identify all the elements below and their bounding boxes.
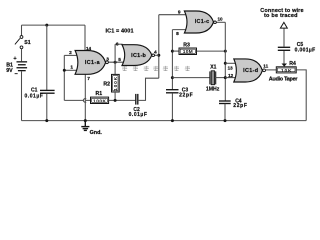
node: C4/rail: [224, 119, 227, 122]
capacitor C1: [40, 90, 55, 93]
capacitor C5: [278, 47, 290, 50]
antenna probe triangle: [280, 22, 287, 28]
node: out-a / R2 / pin5: [114, 61, 117, 64]
wire: pin9 vertical through out-b: [158, 15, 160, 78]
wire: switch to battery: [21, 49, 23, 62]
wire: out-b stub: [155, 54, 159, 56]
svg-text:R2: R2: [103, 81, 110, 87]
wire: C1 to rail: [46, 94, 48, 121]
wire: antenna to C5: [283, 28, 285, 47]
svg-text:IC1 = 4001: IC1 = 4001: [106, 29, 134, 35]
svg-text:10: 10: [218, 17, 224, 22]
svg-text:2: 2: [69, 50, 72, 56]
svg-text:R3: R3: [183, 43, 190, 49]
crystal X1: [172, 77, 209, 79]
wire: R1 to C2: [109, 99, 136, 101]
wire: pin 14: [84, 25, 86, 50]
battery B1 9V: [17, 61, 28, 71]
wire: pin8/C3 vertical: [171, 30, 173, 90]
svg-text:0.01µF: 0.01µF: [25, 93, 43, 99]
svg-text:IC1-d: IC1-d: [243, 68, 258, 74]
svg-text:Audio Taper: Audio Taper: [269, 76, 299, 82]
watermark glyphs: [122, 66, 127, 71]
capacitor C4 22pF: [219, 101, 231, 104]
svg-text:R4: R4: [289, 61, 296, 67]
capacitor C3 22pF: [166, 90, 179, 93]
svg-text:6: 6: [116, 41, 119, 47]
wire: input tie vertical: [63, 55, 65, 100]
gate IC1-c: [184, 11, 213, 33]
node: rail junction to C1: [45, 24, 48, 27]
svg-text:13: 13: [228, 65, 234, 70]
capacitor C2: [136, 94, 138, 105]
gate IC1-a: [75, 51, 106, 75]
svg-text:IC1-b: IC1-b: [131, 53, 146, 59]
svg-text:X1: X1: [210, 64, 216, 70]
wire: IC1-c output down to IC1-d: [216, 21, 225, 23]
svg-text:12: 12: [228, 73, 234, 78]
wire: pin 12 input: [225, 77, 235, 79]
svg-text:22pF: 22pF: [233, 103, 247, 109]
wire: to R1 with hop over ground wire: [64, 99, 90, 103]
svg-text:S1: S1: [24, 40, 30, 46]
wire: pin 8 input: [172, 29, 188, 31]
gate IC1-b: [122, 45, 152, 66]
node: C3/rail: [171, 119, 174, 122]
potentiometer R4 10K: [276, 67, 296, 73]
wire: pin 6 input: [115, 43, 122, 45]
node: pins 1-2 tie: [63, 69, 66, 72]
svg-text:0.001µF: 0.001µF: [295, 47, 316, 53]
svg-text:+: +: [13, 56, 17, 62]
wire: IC1-a output to pins 5/6 node: [108, 61, 125, 63]
svg-text:11: 11: [263, 63, 268, 68]
node: R3 right: [224, 50, 227, 53]
resistor R1 100K: [91, 97, 109, 103]
svg-text:1: 1: [70, 65, 73, 71]
wire: pin 2 input: [64, 54, 78, 56]
wire: C1 branch: [46, 25, 48, 90]
svg-text:−: −: [15, 71, 19, 77]
svg-text:7: 7: [87, 76, 90, 82]
svg-text:IC1-c: IC1-c: [195, 19, 209, 25]
wire: battery to ground rail: [21, 71, 23, 120]
svg-text:100K: 100K: [93, 98, 106, 104]
node: pin7/rail: [84, 119, 87, 122]
wire: pin6 loop / R2 vertical: [114, 44, 116, 74]
wire: R2 bottom: [114, 92, 116, 100]
ground symbol: [81, 121, 89, 131]
wire: IC1-d output: [266, 69, 277, 71]
svg-text:5: 5: [118, 57, 121, 63]
switch S1: [15, 36, 23, 49]
node: C1/rail: [45, 119, 48, 122]
svg-text:8: 8: [176, 31, 179, 37]
svg-text:10M: 10M: [183, 49, 193, 55]
node: pin 13 branch: [224, 62, 227, 65]
svg-text:100K: 100K: [113, 76, 119, 90]
wire: rail down to switch: [21, 25, 23, 35]
resistor R3 10M: [172, 50, 179, 52]
svg-text:IC1-a: IC1-a: [85, 60, 101, 66]
svg-text:R1: R1: [96, 91, 103, 97]
wire: top supply rail: [22, 24, 86, 26]
svg-text:Gnd.: Gnd.: [90, 130, 103, 136]
wire: pin 1 input: [64, 69, 79, 71]
wire: pin 9 input: [159, 14, 186, 16]
node: pin 12 / crystal right: [224, 76, 227, 79]
svg-text:to be traced: to be traced: [264, 13, 298, 19]
resistor R2 100K: [112, 74, 120, 92]
svg-text:0.01µF: 0.01µF: [129, 112, 147, 118]
node: IC1-b output: [157, 54, 160, 57]
node: R3 left: [171, 50, 174, 53]
svg-text:10K: 10K: [281, 68, 292, 74]
svg-text:1MHz: 1MHz: [206, 87, 220, 93]
svg-text:9: 9: [178, 9, 181, 15]
svg-text:22pF: 22pF: [179, 92, 193, 98]
wire: C2 right + staircase to out-b node: [138, 78, 159, 100]
node: R1/R2/C2: [114, 99, 117, 102]
node: crystal left: [171, 76, 174, 79]
wire: pin 13 input: [225, 62, 235, 64]
wire: R4 right to rail: [296, 70, 306, 121]
wire: bottom ground rail: [22, 120, 307, 122]
gate IC1-d: [234, 59, 263, 82]
wire: pin 7 to ground: [84, 74, 86, 120]
svg-text:9V: 9V: [6, 68, 13, 74]
R4 wiper arrow: [283, 51, 285, 64]
